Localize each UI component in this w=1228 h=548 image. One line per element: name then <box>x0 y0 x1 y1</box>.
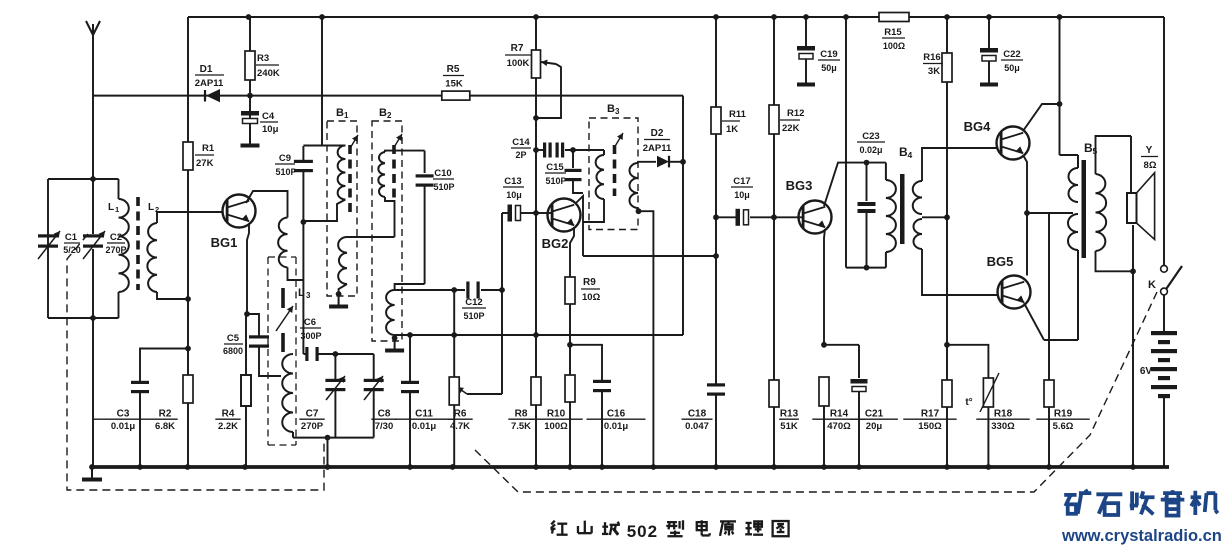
svg-text:R16: R16 <box>923 52 940 63</box>
node C11 top <box>407 332 413 338</box>
node B2 feedback ground <box>392 335 398 341</box>
ground below C4 <box>241 127 260 146</box>
svg-text:L: L <box>148 202 154 213</box>
wire R11 C18 vertical <box>715 17 717 467</box>
svg-text:B: B <box>336 107 344 119</box>
inductor L1 <box>108 199 129 292</box>
capacitor C3 <box>94 349 189 468</box>
svg-text:7.5K: 7.5K <box>511 421 531 432</box>
capacitor C11 <box>395 335 454 467</box>
wire rail to switch <box>1163 17 1165 265</box>
wire R9 to R10 <box>569 304 571 375</box>
node bus 92 <box>89 464 95 470</box>
svg-text:C5: C5 <box>227 333 240 344</box>
wire rail to B1 <box>303 17 345 146</box>
ground below B1 <box>329 294 348 307</box>
node rail R16 <box>944 14 950 20</box>
node bus 410 <box>407 464 413 470</box>
capacitor C19 <box>797 17 840 85</box>
node R17 R18 <box>944 342 950 348</box>
node rail B4 <box>843 14 849 20</box>
inductor B1 secondary <box>338 237 394 294</box>
resistor R12 <box>769 105 804 134</box>
node B3 secondary corner <box>636 208 642 214</box>
svg-text:BG2: BG2 <box>542 236 569 251</box>
core B1 <box>348 145 352 215</box>
trimmer arrow B1 <box>349 135 358 150</box>
wire AVC line horizontal <box>93 95 683 97</box>
svg-text:1K: 1K <box>726 124 738 135</box>
svg-text:10Ω: 10Ω <box>582 292 601 303</box>
wire B2 to C12 <box>395 289 465 291</box>
resistor R16 <box>923 52 952 82</box>
svg-text:C16: C16 <box>607 409 626 420</box>
node bus 602 <box>599 464 605 470</box>
resistor R4 <box>215 314 251 467</box>
svg-text:8Ω: 8Ω <box>1144 160 1157 171</box>
wire rail to B5 <box>1060 17 1079 155</box>
svg-text:2: 2 <box>387 111 392 120</box>
inductor B3 primary <box>583 150 604 222</box>
node R11 BG2 wire <box>713 253 719 259</box>
wire BG3 base <box>774 216 803 218</box>
wire B4 centre tap <box>922 216 947 218</box>
node rail C19 <box>803 14 809 20</box>
svg-text:100Ω: 100Ω <box>883 41 905 51</box>
wire volume pickup vertical <box>501 213 503 394</box>
core L1-L2 <box>136 197 140 290</box>
transformer B4 primary <box>886 145 913 268</box>
svg-text:BG3: BG3 <box>786 178 813 193</box>
svg-text:C23: C23 <box>862 131 879 142</box>
capacitor C6 <box>300 317 322 361</box>
svg-text:R15: R15 <box>884 27 902 38</box>
svg-text:10μ: 10μ <box>506 190 522 200</box>
oscillator primary coil <box>278 218 303 281</box>
capacitor C1 <box>38 231 81 259</box>
node bus 947 <box>944 464 950 470</box>
svg-text:C17: C17 <box>733 176 750 187</box>
svg-text:R3: R3 <box>257 53 269 64</box>
node bus 187.5 <box>185 464 191 470</box>
wire BG5 emitter <box>1024 303 1044 340</box>
capacitor C16 <box>570 345 646 467</box>
node R9 R10 C16 <box>567 342 573 348</box>
resistor R11 <box>711 107 747 135</box>
node bus 716 <box>713 464 719 470</box>
resistor R14 <box>812 377 865 467</box>
svg-text:470Ω: 470Ω <box>827 421 851 432</box>
svg-text:1: 1 <box>344 111 349 120</box>
node R6 AGC <box>451 332 457 338</box>
node osc tank C7 <box>333 351 339 357</box>
svg-text:R12: R12 <box>787 108 804 119</box>
capacitor C17 <box>716 176 774 226</box>
svg-text:3: 3 <box>306 291 311 300</box>
trimmer arrow B2 <box>393 134 402 149</box>
svg-text:0.01μ: 0.01μ <box>604 421 628 432</box>
svg-text:R13: R13 <box>780 409 799 420</box>
capacitor C23 <box>857 131 885 268</box>
node B4 tap R16 <box>944 214 950 220</box>
title <box>551 520 789 541</box>
svg-text:C18: C18 <box>688 409 707 420</box>
svg-text:10μ: 10μ <box>262 124 279 135</box>
wire rail left drop / R1-R2 line <box>187 17 189 467</box>
node C12 left <box>451 287 457 293</box>
wire C14 to B3 <box>565 149 604 151</box>
node rail R3 <box>246 14 252 20</box>
svg-text:2: 2 <box>155 205 159 214</box>
node tank top <box>90 176 96 182</box>
svg-text:C15: C15 <box>546 162 564 173</box>
capacitor C9 <box>275 153 313 177</box>
resistor R1 <box>183 142 215 170</box>
svg-text:C12: C12 <box>465 297 482 308</box>
svg-text:R19: R19 <box>1054 409 1073 420</box>
svg-text:6V: 6V <box>1140 366 1153 377</box>
watermark crystalradio <box>1061 490 1222 545</box>
inductor L3 <box>282 354 293 438</box>
inductor B3 secondary <box>630 162 657 467</box>
capacitor C13 <box>502 176 536 222</box>
svg-text:6.8K: 6.8K <box>155 421 175 432</box>
wire R19 node <box>1044 213 1078 340</box>
svg-text:3K: 3K <box>928 66 940 77</box>
svg-text:2.2K: 2.2K <box>218 421 238 432</box>
svg-text:C3: C3 <box>117 409 130 420</box>
svg-text:51K: 51K <box>780 421 798 432</box>
svg-text:510P: 510P <box>275 167 296 177</box>
wire osc tank bottom <box>293 437 374 439</box>
capacitor C2 <box>83 231 127 259</box>
ground below B2 <box>385 338 404 351</box>
svg-text:R18: R18 <box>994 409 1013 420</box>
transformer B5 primary <box>1068 141 1098 340</box>
node rail B5 <box>1057 14 1063 20</box>
svg-text:2P: 2P <box>515 150 526 160</box>
svg-text:R17: R17 <box>921 409 940 420</box>
wire BG5 collector <box>1026 213 1028 276</box>
resistor R6 volume <box>447 290 472 467</box>
svg-text:2AP11: 2AP11 <box>195 78 224 89</box>
resistor R17 <box>903 380 956 432</box>
svg-text:L: L <box>108 202 114 213</box>
svg-text:10μ: 10μ <box>734 190 750 200</box>
svg-text:R9: R9 <box>583 277 596 288</box>
resistor R15 <box>879 13 909 52</box>
svg-text:R11: R11 <box>729 109 747 120</box>
node bus 140 <box>137 464 143 470</box>
core B5 <box>1082 160 1087 258</box>
resistor R8 <box>508 377 541 432</box>
svg-text:C19: C19 <box>820 49 837 60</box>
transistor BG4 <box>964 119 1030 160</box>
transistor BG5 <box>987 254 1031 309</box>
svg-text:C6: C6 <box>304 317 316 328</box>
node osc tank bottom <box>325 435 331 441</box>
wire top supply rail <box>188 16 1164 18</box>
svg-text:150Ω: 150Ω <box>918 421 942 432</box>
wire BG3 collector <box>824 163 886 206</box>
svg-text:1: 1 <box>115 205 119 214</box>
node bus 824 <box>821 464 827 470</box>
wire tuning tank rectangle <box>48 179 119 318</box>
node BG3 emitter R14 <box>821 342 827 348</box>
svg-text:5.6Ω: 5.6Ω <box>1053 421 1074 432</box>
svg-text:4.7K: 4.7K <box>450 421 470 432</box>
svg-text:20μ: 20μ <box>866 421 883 432</box>
svg-text:BG4: BG4 <box>964 119 992 134</box>
wire R6 wiper <box>457 387 502 394</box>
node R2 top C3 join <box>185 346 191 352</box>
node rail R11 <box>713 14 719 20</box>
node bus 774 <box>771 464 777 470</box>
battery 6V <box>1140 331 1177 467</box>
transistor BG1 <box>211 195 256 251</box>
label L3 <box>298 287 311 300</box>
node bus 988.4 <box>986 464 992 470</box>
resistor R18 thermistor <box>947 345 1030 467</box>
dashed box B1 <box>327 107 357 296</box>
node L2 bottom <box>185 296 191 302</box>
svg-text:D1: D1 <box>200 64 213 75</box>
diode D2 2AP11 <box>643 128 683 167</box>
svg-text:R10: R10 <box>547 409 566 420</box>
svg-text:240K: 240K <box>257 68 280 79</box>
svg-text:t°: t° <box>965 397 972 408</box>
resistor R10 <box>529 375 582 467</box>
resistor R19 <box>1036 340 1089 467</box>
dashed box B2 <box>372 107 402 341</box>
wire antenna vertical through C2 <box>92 179 94 467</box>
svg-text:B: B <box>379 107 387 119</box>
svg-text:0.02μ: 0.02μ <box>859 145 882 155</box>
trimmer arrow L3 <box>276 306 293 331</box>
speaker Y <box>1127 136 1158 271</box>
core B4 <box>900 174 905 244</box>
node rail center <box>533 14 539 20</box>
wire emitter to B5 tap <box>1027 212 1073 214</box>
wire BG2 base <box>533 210 552 216</box>
svg-text:100K: 100K <box>507 58 530 69</box>
node bus 1049 <box>1046 464 1052 470</box>
switch K <box>1148 265 1182 295</box>
node bus 570 <box>567 464 573 470</box>
svg-text:C22: C22 <box>1003 49 1020 60</box>
transistor BG2 <box>542 199 581 252</box>
capacitor C22 <box>980 17 1023 85</box>
svg-text:R7: R7 <box>511 43 524 54</box>
wire osc tank to bus <box>327 438 329 467</box>
node speaker bottom <box>1130 268 1136 274</box>
svg-text:0.01μ: 0.01μ <box>111 421 135 432</box>
node B1 secondary ground <box>336 291 342 297</box>
svg-text:270P: 270P <box>301 421 324 432</box>
svg-text:BG5: BG5 <box>987 254 1014 269</box>
svg-text:510P: 510P <box>433 182 454 192</box>
wire AGC line horizontal <box>395 334 683 336</box>
svg-text:50μ: 50μ <box>821 63 837 73</box>
diode D1 2AP11 <box>195 64 224 102</box>
node rail R12 <box>771 14 777 20</box>
node R12 BG3 base <box>771 214 777 220</box>
svg-text:B: B <box>607 103 615 115</box>
inductor B2 feedback <box>386 290 395 339</box>
node bus 536 <box>533 464 539 470</box>
dashed box L3 <box>268 257 296 445</box>
wire C9 line vertical <box>302 146 304 354</box>
wire switch to battery <box>1163 295 1165 331</box>
trimmer arrow B3 <box>614 133 623 148</box>
dashed gang box <box>67 234 324 490</box>
svg-text:C1: C1 <box>65 232 78 243</box>
svg-text:100Ω: 100Ω <box>544 421 568 432</box>
node R3 bottom AVC <box>247 93 253 99</box>
capacitor C10 <box>395 151 455 290</box>
node bus 859 <box>856 464 862 470</box>
svg-text:C13: C13 <box>504 176 521 187</box>
node R11 C17 <box>713 214 719 220</box>
svg-text:R6: R6 <box>454 409 467 420</box>
svg-text:R8: R8 <box>515 409 528 420</box>
capacitor C5 <box>223 314 281 376</box>
node C14 left <box>533 147 539 153</box>
wire osc tank top <box>303 353 373 355</box>
wire BG2 emitter <box>570 227 574 277</box>
node D2 output <box>680 159 686 165</box>
wire BG1 collector to osc coil <box>246 191 288 218</box>
svg-text:7/30: 7/30 <box>375 421 394 432</box>
svg-text:R4: R4 <box>222 409 235 420</box>
capacitor C4 <box>241 111 279 135</box>
node center AGC <box>533 332 539 338</box>
svg-text:510P: 510P <box>463 311 484 321</box>
wire speaker to bus <box>1132 271 1134 467</box>
wire BG4 collector <box>1023 104 1060 131</box>
wire R7 wiper <box>536 60 561 118</box>
resistor R5 <box>442 64 470 100</box>
svg-text:50μ: 50μ <box>1004 63 1020 73</box>
node bus 245 <box>242 464 248 470</box>
svg-text:510P: 510P <box>545 176 566 186</box>
svg-text:C11: C11 <box>415 409 433 420</box>
svg-text:C14: C14 <box>512 137 530 148</box>
wire R16 R17 vertical <box>946 17 948 467</box>
resistor R2 <box>152 375 193 432</box>
wire AVC right vertical from D2 to AGC <box>682 96 684 335</box>
svg-text:K: K <box>1148 279 1156 291</box>
svg-text:BG1: BG1 <box>211 235 238 250</box>
svg-text:R5: R5 <box>447 64 460 75</box>
node bus 452.5 <box>450 464 456 470</box>
capacitor C15 <box>545 150 583 193</box>
ground bus left ground <box>82 467 102 480</box>
svg-text:22K: 22K <box>782 123 800 134</box>
svg-text:330Ω: 330Ω <box>991 421 1015 432</box>
core oscillator <box>281 288 285 352</box>
capacitor C18 <box>682 383 726 432</box>
node bus 1133 <box>1130 464 1136 470</box>
resistor R3 <box>245 51 280 80</box>
dashed box B3 <box>589 103 638 230</box>
transformer B4 secondary <box>913 148 998 295</box>
wire C12 to C13 line <box>481 289 502 291</box>
wire B4 tank left vertical <box>845 17 847 268</box>
capacitor C8 <box>364 354 397 438</box>
core B3 <box>613 145 617 196</box>
wire R12 R13 vertical <box>773 17 775 467</box>
transistor BG3 <box>786 178 832 234</box>
svg-text:C9: C9 <box>279 153 291 164</box>
wire BG2 collector <box>576 196 583 256</box>
capacitor C12 <box>462 282 486 322</box>
svg-text:C8: C8 <box>378 409 391 420</box>
inductor B1 primary <box>303 146 345 222</box>
svg-text:C21: C21 <box>865 409 884 420</box>
resistor R13 <box>769 380 799 432</box>
resistor R7 <box>505 43 541 78</box>
svg-text:0.01μ: 0.01μ <box>412 421 436 432</box>
antenna <box>86 21 100 179</box>
node bus 653.4 <box>651 464 657 470</box>
svg-text:15K: 15K <box>445 79 463 90</box>
wire R3-C4 vertical <box>249 17 251 146</box>
node C12 right <box>499 287 505 293</box>
node C23 top <box>864 160 870 166</box>
node R7 wiper <box>533 115 539 121</box>
svg-text:C10: C10 <box>434 168 451 179</box>
wire BG3 emitter <box>824 229 825 345</box>
svg-text:R1: R1 <box>202 143 215 154</box>
node rail C22 <box>986 14 992 20</box>
inductor L2 <box>147 202 222 299</box>
node rail B1 <box>319 14 325 20</box>
capacitor C21 <box>824 345 898 467</box>
svg-text:2AP11: 2AP11 <box>643 143 672 154</box>
node BG4 emitter <box>1024 210 1030 216</box>
svg-text:27K: 27K <box>196 158 214 169</box>
svg-text:4: 4 <box>908 150 913 160</box>
dashed volume link <box>475 292 1157 492</box>
wire BG4 emitter <box>1023 155 1027 213</box>
ground bus <box>92 465 1169 469</box>
node C14 right <box>570 147 576 153</box>
node tank bottom <box>90 315 96 321</box>
node BG4 collector join <box>1057 101 1063 107</box>
capacitor C7 <box>299 354 345 438</box>
svg-text:C4: C4 <box>262 111 275 122</box>
svg-text:0.047: 0.047 <box>685 421 709 432</box>
wire BG2 collector to R11 <box>583 255 716 257</box>
resistor R9 <box>565 277 601 304</box>
svg-text:502: 502 <box>627 522 658 541</box>
wire center vertical <box>535 17 537 467</box>
svg-text:300P: 300P <box>300 331 321 341</box>
svg-text:C7: C7 <box>306 409 319 420</box>
svg-text:D2: D2 <box>651 128 664 139</box>
svg-text:R2: R2 <box>159 409 172 420</box>
transformer B5 secondary <box>1096 136 1132 271</box>
node bus 327.5 <box>325 464 331 470</box>
node C23 bottom <box>864 265 870 271</box>
wire BG1 emitter <box>247 224 249 314</box>
node BG1 emitter C5 <box>244 311 250 317</box>
wire B4 tank bottom <box>846 267 886 269</box>
svg-text:C2: C2 <box>110 232 122 243</box>
svg-text:6800: 6800 <box>223 346 243 356</box>
svg-text:www.crystalradio.cn: www.crystalradio.cn <box>1061 527 1222 545</box>
